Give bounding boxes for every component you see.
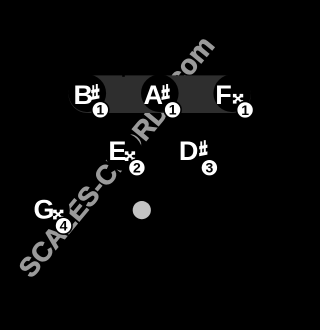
svg-text:2: 2 <box>133 160 141 176</box>
svg-text:B: B <box>74 80 94 110</box>
svg-text:A: A <box>144 80 164 110</box>
svg-text:1: 1 <box>169 102 177 118</box>
svg-text:G: G <box>33 194 54 224</box>
finger badge 1 on B# <box>91 101 110 120</box>
svg-text:4: 4 <box>60 218 68 234</box>
fret marker dot <box>133 201 151 219</box>
svg-text:1: 1 <box>241 102 249 118</box>
note circle A# <box>141 75 179 113</box>
label Fx <box>215 80 243 110</box>
svg-text:D: D <box>179 136 199 166</box>
svg-text:1: 1 <box>96 102 104 118</box>
finger badge 1 on Fx <box>236 101 255 120</box>
label Gx <box>33 194 63 224</box>
string 3 tick <box>122 74 125 77</box>
note circle D# <box>177 133 215 171</box>
svg-text:E: E <box>108 136 126 166</box>
label B# <box>74 80 100 110</box>
finger badge 2 on Ex <box>128 158 147 177</box>
finger badge 1 on A# <box>163 101 182 120</box>
finger badge 3 on D# <box>200 158 219 177</box>
note circle Ex <box>105 133 143 171</box>
note circle Fx <box>213 75 251 113</box>
finger badge 4 on Gx <box>54 216 73 235</box>
label Ex <box>108 136 135 166</box>
svg-text:3: 3 <box>206 160 214 176</box>
label A# <box>144 80 170 110</box>
note circle B# <box>69 75 107 113</box>
note circle Gx <box>32 191 70 229</box>
svg-text:F: F <box>215 80 232 110</box>
label D# <box>179 136 208 166</box>
barre bar fret 1 <box>69 75 252 113</box>
